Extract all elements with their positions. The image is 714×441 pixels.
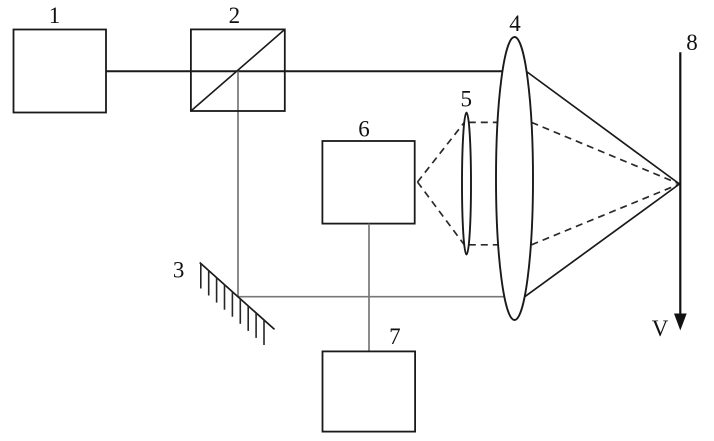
svg-text:4: 4	[509, 11, 521, 36]
svg-text:5: 5	[460, 87, 472, 112]
svg-text:7: 7	[389, 324, 401, 349]
svg-text:8: 8	[686, 30, 698, 55]
svg-text:1: 1	[49, 3, 61, 28]
svg-text:V: V	[652, 316, 669, 341]
svg-text:6: 6	[358, 117, 370, 142]
svg-text:3: 3	[173, 258, 185, 283]
svg-text:2: 2	[229, 3, 241, 28]
